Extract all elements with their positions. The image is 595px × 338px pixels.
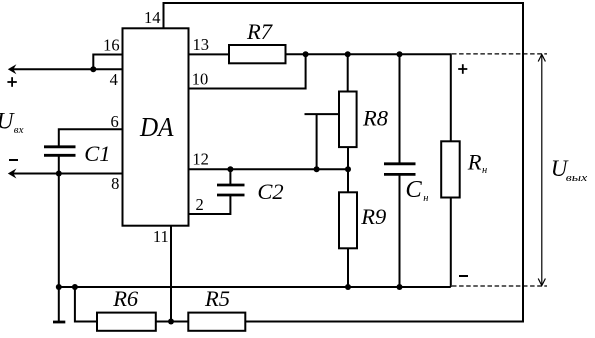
svg-text:2: 2 [195,195,203,214]
IC DA body [123,28,189,225]
wire branch to R6 [75,287,97,322]
svg-text:4: 4 [110,70,118,89]
resistor R9 [339,192,357,248]
node junction ground rail [56,284,62,290]
resistor R6 [97,313,156,331]
svg-text:вх: вх [14,124,24,136]
node junction R8 top [345,51,351,57]
node junction C2 top [227,166,233,172]
wire pin 8 input minus line [13,173,123,175]
wire R9 top lead [347,169,349,192]
capacitor C1 [44,147,76,156]
capacitor C2 [217,185,245,195]
capacitor Cn [384,164,416,175]
wire Cn top lead [399,54,401,163]
svg-text:10: 10 [192,69,209,88]
ground [53,321,65,324]
resistor R8 [339,92,357,148]
wire output arrow line [538,54,545,285]
node junction tap [314,166,320,172]
wire pin 12 net [189,168,349,170]
wire pin 10 up to rail [189,54,306,88]
svg-text:R9: R9 [360,204,386,229]
node junction R8/R9 [345,166,351,172]
svg-text:13: 13 [193,35,210,54]
resistor Rn [441,141,460,197]
svg-text:C1: C1 [84,141,110,166]
resistor R7 [229,45,286,63]
svg-text:R7: R7 [246,19,274,44]
svg-text:R5: R5 [204,286,230,311]
node junction R7 output [303,51,309,57]
wire R6 to R5 [156,321,189,323]
node junction C1 bottom [56,171,62,177]
wire dashed output minus [452,285,547,287]
wire tap down to pin 12 net [316,114,318,169]
node junction Cn top [397,51,403,57]
node junction R9 bottom [345,284,351,290]
svg-text:R6: R6 [112,286,139,311]
wire R8 top lead [347,54,349,91]
wire bottom rail [59,286,451,288]
wire C2 top lead [229,169,231,184]
wire R8 tap bar [305,113,340,115]
svg-text:12: 12 [192,149,209,168]
svg-text:R: R [467,150,482,175]
wire pin 16 to junction [93,55,122,70]
wire pin 13 to R7 [189,53,230,55]
wire R9 bottom lead [347,248,349,287]
svg-text:DA: DA [139,112,174,142]
svg-text:н: н [482,165,487,176]
arrow input plus [8,64,17,74]
wire C2 bottom lead to pin 2 [189,195,231,214]
svg-text:C2: C2 [257,179,283,204]
resistor R5 [188,313,245,331]
wire R8 bottom lead [347,147,349,169]
wire top border from pin 14 to right edge down to bottom [164,3,524,322]
svg-text:14: 14 [144,8,161,27]
node junction R6/R5 pin11 [168,319,174,325]
input plus sign [7,77,16,87]
svg-text:6: 6 [110,112,118,131]
svg-text:16: 16 [103,36,120,55]
wire C1 bottom lead [58,155,60,173]
wire C1 junction down to ground [58,174,60,322]
wire Rn bottom lead [450,198,452,288]
input minus sign [9,159,18,161]
svg-text:8: 8 [111,174,119,193]
node junction Cn bottom [397,284,403,290]
arrow input minus [8,169,17,179]
svg-text:11: 11 [153,227,169,246]
wire dashed output plus [452,53,547,55]
svg-text:R8: R8 [362,105,388,130]
output minus sign [459,275,468,277]
wire pin 11 down [170,226,172,322]
wire pin 6 to C1 [59,129,123,146]
svg-text:н: н [423,193,428,204]
svg-text:C: C [405,176,422,203]
node junction pin16/pin4 [90,66,96,72]
svg-text:вых: вых [566,172,588,184]
wire Cn bottom lead [399,174,401,287]
output plus sign [458,64,467,74]
node junction R6 branch [72,284,78,290]
wire top rail R7 output to Rn [286,54,451,141]
wire pin 4 input plus line [13,68,123,70]
